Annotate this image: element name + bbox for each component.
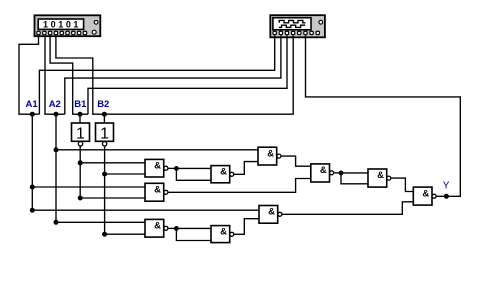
svg-text:A2: A2 bbox=[49, 99, 61, 110]
wire B1n column bbox=[79, 146, 81, 198]
wire generator pin3 to node B1 bbox=[50, 36, 88, 115]
nand gate G2 box bbox=[211, 166, 230, 183]
wire A2 to gate G8 input 1 bbox=[56, 221, 145, 223]
nand gate G7 box bbox=[413, 187, 432, 205]
nand gate G5 box bbox=[311, 164, 330, 182]
junction node A2 bbox=[54, 112, 59, 117]
wire A2 column bbox=[55, 114, 57, 222]
inverter U4 output bubble bbox=[102, 142, 106, 146]
wire B1 into inverter U3 bbox=[79, 114, 81, 123]
word generator U1 pin row bbox=[37, 31, 87, 34]
svg-text:&: & bbox=[320, 165, 327, 176]
junction G8 output bbox=[174, 226, 179, 231]
junction G5 output bbox=[339, 171, 344, 176]
wire G5 output bbox=[334, 172, 341, 174]
logic analyzer U2 display bbox=[273, 18, 311, 30]
logic analyzer U2 waveform trace 1 bbox=[279, 20, 305, 22]
nand gate G9 bubble bbox=[230, 232, 234, 236]
wire generator pin1 to node A1 bbox=[19, 36, 39, 115]
nand gate G2 bubble bbox=[230, 172, 234, 176]
wire G6 output to gate G7 input 1 bbox=[391, 178, 414, 191]
wire G5 to gate G6 input 1 bbox=[341, 172, 368, 174]
nand gate G8 bubble bbox=[164, 226, 168, 230]
inverter U3 box bbox=[72, 123, 90, 141]
nand gate G10 box bbox=[259, 206, 278, 224]
inverter U4 box bbox=[96, 123, 114, 141]
inverter U3 output bubble bbox=[78, 142, 82, 146]
svg-text:&: & bbox=[220, 167, 227, 178]
svg-text:&: & bbox=[154, 221, 161, 232]
nand gate G7 bubble bbox=[432, 194, 436, 198]
svg-text:A1: A1 bbox=[26, 99, 39, 110]
logic analyzer U2 waveform trace 2 bbox=[279, 25, 305, 27]
nand gate G4 bubble bbox=[164, 190, 168, 194]
word generator U1 body bbox=[35, 15, 101, 36]
nand gate G4 box bbox=[145, 183, 164, 201]
logic analyzer U2 pin row bbox=[273, 31, 319, 34]
wire B2n column bbox=[104, 146, 106, 234]
wire G2 output to gate G3 input 2 bbox=[234, 162, 258, 175]
wire G8 loop to gate G9 input 2 bbox=[176, 228, 211, 240]
wire generator pin2 to node A2 bbox=[45, 36, 65, 115]
svg-text:&: & bbox=[154, 161, 161, 172]
nand gate G6 box bbox=[368, 169, 387, 187]
svg-text:&: & bbox=[268, 207, 275, 218]
junction A1 corner bbox=[30, 208, 35, 213]
junction G1 output bbox=[174, 166, 179, 171]
wire generator pin4 to node B2 and analyzer pin4 bbox=[56, 36, 293, 115]
junction B1n to G1 bbox=[78, 160, 83, 165]
wire A1 to gate G10 input 1 bbox=[32, 209, 259, 211]
junction node B2 bbox=[102, 112, 107, 117]
junction A2 corner bbox=[54, 220, 59, 225]
wire G3 output to gate G5 input 1 bbox=[281, 156, 311, 166]
wire A1 to gate G4 input 1 bbox=[32, 186, 145, 188]
wire B2 into inverter U4 bbox=[103, 114, 105, 123]
junction node B1 bbox=[78, 112, 83, 117]
svg-text:&: & bbox=[267, 148, 274, 159]
svg-text:1: 1 bbox=[100, 126, 109, 143]
wire G10 output to gate G7 input 2 bbox=[282, 202, 413, 215]
wire B1n to gate G4 input 2 bbox=[80, 197, 145, 199]
nand gate G1 bubble bbox=[164, 166, 168, 170]
svg-text:&: & bbox=[220, 227, 227, 238]
svg-text:&: & bbox=[377, 170, 384, 181]
nand gate G8 box bbox=[145, 219, 164, 237]
wire G7 output to node Y bbox=[306, 36, 461, 197]
junction A1 to G4 bbox=[30, 185, 35, 190]
svg-text:&: & bbox=[422, 188, 429, 199]
nand gate G10 bubble bbox=[278, 212, 282, 216]
word generator U1 display bbox=[38, 19, 83, 29]
wire G8 to gate G9 input 1 bbox=[176, 227, 211, 229]
svg-text:B1: B1 bbox=[74, 99, 87, 110]
junction B2n to G1 bbox=[102, 172, 107, 177]
junction node Y bbox=[444, 194, 449, 199]
nand gate G9 box bbox=[211, 226, 230, 243]
wire B2n to gate G8 input 2 bbox=[105, 233, 145, 235]
wire G1 loop to gate G2 input 2 bbox=[176, 168, 211, 180]
nand gate G5 bubble bbox=[330, 171, 334, 175]
wire node A1 bus to analyzer pin1 bbox=[39, 36, 274, 115]
svg-text:&: & bbox=[154, 184, 161, 195]
svg-text:Y: Y bbox=[443, 181, 450, 192]
wire G5 loop to gate G6 input 2 bbox=[341, 173, 368, 184]
logic analyzer U2 button top-right bbox=[319, 20, 323, 24]
svg-text:10101: 10101 bbox=[43, 20, 81, 30]
wire G9 output to gate G10 input 2 bbox=[234, 219, 259, 235]
svg-text:1: 1 bbox=[76, 126, 85, 143]
nand gate G6 bubble bbox=[387, 176, 391, 180]
wire A1 column bbox=[31, 114, 33, 210]
wire A2 to gate G3 input 1 bbox=[56, 149, 258, 151]
wire G8 output bbox=[168, 227, 177, 229]
wire G4 output to gate G5 input 2 bbox=[168, 179, 311, 193]
wire G1 output bbox=[168, 167, 177, 169]
wire B1n to gate G1 input 1 bbox=[80, 162, 145, 164]
wire G1 to gate G2 input 1 bbox=[176, 167, 211, 169]
wire node A2 bus to analyzer pin2 bbox=[65, 36, 281, 115]
nand gate G3 box bbox=[258, 147, 277, 165]
logic analyzer U2 body bbox=[270, 15, 325, 37]
wire B2n to gate G1 input 2 bbox=[105, 173, 145, 175]
wire node B1 bus to analyzer pin3 bbox=[88, 36, 287, 115]
nand gate G1 box bbox=[145, 159, 164, 177]
junction node A1 bbox=[30, 112, 35, 117]
junction B2n corner bbox=[102, 232, 107, 237]
word generator U1 button bottom-right bbox=[92, 30, 96, 34]
svg-text:B2: B2 bbox=[97, 99, 109, 110]
nand gate G3 bubble bbox=[277, 154, 281, 158]
junction A2 to G3 bbox=[54, 147, 59, 152]
word generator U1 button top-right bbox=[94, 20, 98, 24]
junction B1n corner bbox=[78, 196, 83, 201]
